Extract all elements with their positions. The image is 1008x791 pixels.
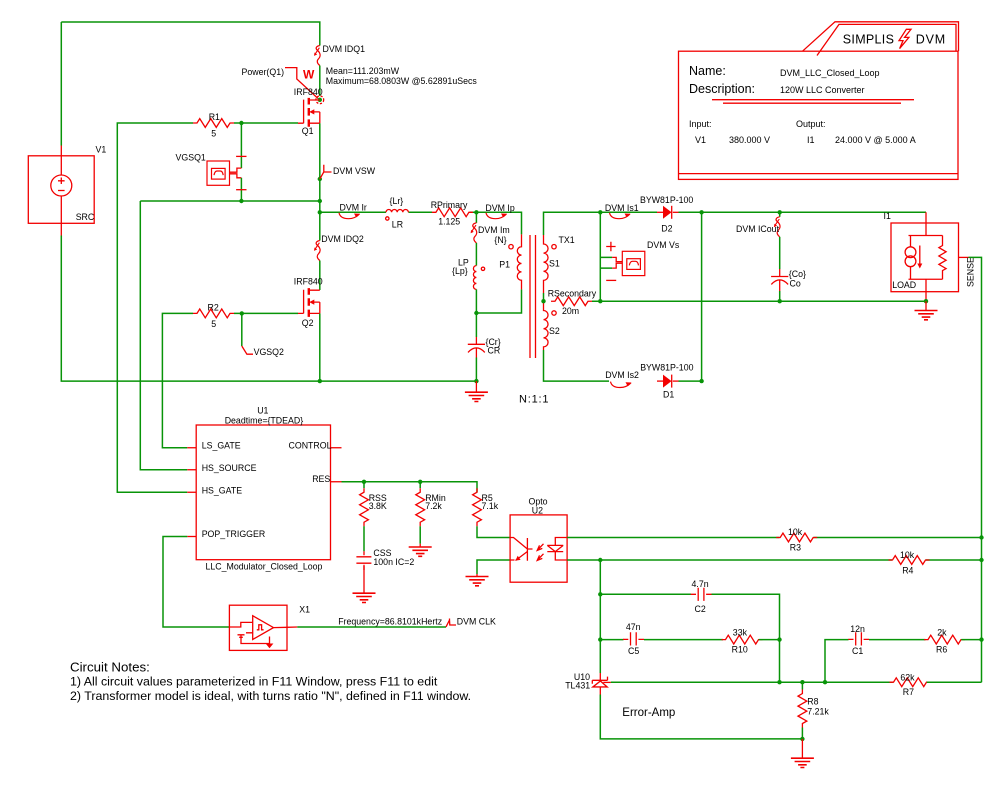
junction RES RMin	[418, 480, 422, 484]
svg-text:R8: R8	[807, 696, 818, 706]
opto light arrows	[537, 544, 543, 561]
wire opto collector R3 line	[567, 537, 981, 539]
transformer secondary winding S2	[544, 301, 549, 350]
DVM banner inner	[817, 24, 956, 55]
wire Q2 source to ground rail	[319, 313, 321, 381]
wire C1 branch vertical	[825, 640, 849, 683]
resistor R5	[473, 488, 482, 526]
svg-text:X1: X1	[299, 605, 310, 615]
svg-text:47n: 47n	[626, 622, 641, 632]
svg-text:POP_TRIGGER: POP_TRIGGER	[202, 529, 266, 539]
svg-text:C5: C5	[628, 646, 639, 656]
wire opto emitter to ground	[477, 560, 510, 574]
svg-text:Frequency=86.8101kHertz: Frequency=86.8101kHertz	[338, 616, 442, 626]
current source I1 arrow	[919, 246, 921, 265]
junction opto cathode TL431	[598, 558, 602, 562]
wire ICout to Co	[779, 237, 781, 269]
wire IDQ1 to Q1 drain	[319, 66, 321, 97]
ground CSS	[353, 593, 376, 602]
svg-text:Name:: Name:	[689, 64, 726, 78]
wire R5 to opto	[477, 526, 510, 537]
svg-text:IRF840: IRF840	[294, 87, 323, 97]
svg-text:BYW81P-100: BYW81P-100	[640, 195, 693, 205]
wire HS_SOURCE vertical	[140, 201, 187, 470]
ground load	[925, 301, 927, 310]
wire TL431 cathode vertical	[599, 560, 601, 673]
wire R8 bottom	[801, 728, 803, 739]
svg-text:2k: 2k	[937, 628, 947, 638]
wire C2/R10 down to main line	[779, 640, 781, 683]
current probe DVM Ir	[339, 213, 360, 219]
svg-text:S2: S2	[549, 326, 560, 336]
capacitor Co curved plate	[771, 280, 788, 291]
current probe DVM Ip	[486, 213, 507, 219]
transformer secondary winding S1	[544, 235, 549, 293]
wire S1 bottom junction	[543, 293, 545, 301]
junction R4 sense	[979, 558, 983, 562]
DVM info box inner bottom line	[679, 173, 959, 175]
capacitor CR curved plate	[468, 348, 485, 358]
wire Co bottom	[779, 291, 781, 301]
opto phototransistor	[510, 538, 532, 561]
junction D2 cathode node	[699, 210, 703, 214]
junction VSW probe	[318, 177, 322, 181]
junction R8 top	[800, 680, 804, 684]
junction C2 line	[598, 592, 602, 596]
phase dot P1	[509, 245, 513, 249]
wire TL431 anode down	[600, 695, 802, 739]
voltage source V1 box	[28, 156, 94, 224]
optocoupler U2 box	[510, 515, 567, 582]
svg-text:I1: I1	[807, 135, 815, 145]
probe DVM Vs plus	[606, 242, 615, 251]
wire S2 bottom to D1 rail	[544, 350, 610, 381]
wire RES rail	[342, 482, 478, 492]
junction R3 sense	[979, 535, 983, 539]
junction C1 branch	[823, 680, 827, 684]
pin RES	[331, 481, 342, 483]
diode D1	[657, 380, 663, 382]
transformer core	[530, 235, 536, 358]
DVM banner outer	[803, 22, 959, 51]
svg-text:100n IC=2: 100n IC=2	[373, 557, 414, 567]
ground primary	[475, 381, 477, 392]
source V1 plus	[58, 178, 65, 185]
oscillator X1 box	[229, 605, 287, 650]
wire secondary top rail to D2	[600, 211, 657, 213]
controller U1 box	[196, 425, 330, 560]
resistor R1	[193, 119, 234, 128]
resistor R7	[890, 678, 931, 687]
CSS to ground	[363, 566, 365, 593]
current probe DVM Is1	[610, 213, 631, 219]
capacitor CR plate	[468, 337, 485, 344]
junction load bottom	[924, 299, 928, 303]
svg-text:10k: 10k	[900, 550, 915, 560]
wire D1 to cathode vertical	[679, 380, 702, 382]
svg-text:CONTROL: CONTROL	[289, 441, 332, 451]
svg-text:24.000 V @ 5.000 A: 24.000 V @ 5.000 A	[835, 135, 916, 145]
junction VSW node	[318, 199, 322, 203]
svg-text:R1: R1	[209, 112, 220, 122]
junction LP/CR/primary-return	[474, 311, 478, 315]
svg-text:SIMPLIS: SIMPLIS	[843, 33, 894, 47]
svg-text:R4: R4	[902, 566, 913, 576]
svg-text:SENSE: SENSE	[966, 257, 976, 287]
wire C1 to R6	[869, 639, 926, 641]
phase dot TX1	[552, 245, 556, 249]
X1 ref symbol	[238, 635, 245, 638]
resistor R10	[722, 635, 763, 644]
svg-text:3.8K: 3.8K	[369, 501, 387, 511]
svg-text:S1: S1	[549, 259, 560, 269]
junction C2R10 main	[777, 680, 781, 684]
svg-text:C2: C2	[695, 604, 706, 614]
ground error amp	[801, 739, 803, 758]
svg-text:DVM CLK: DVM CLK	[457, 616, 496, 626]
transistor Q2	[298, 288, 320, 317]
junction Vs center tap	[598, 299, 602, 303]
wire X1 output CLK	[297, 626, 446, 628]
wire RMin stub	[419, 482, 421, 488]
svg-text:{N}: {N}	[494, 235, 506, 245]
current probe DVM IDQ1	[314, 46, 320, 66]
ground RMin	[419, 544, 421, 547]
wire C2 right	[712, 594, 780, 639]
svg-text:Q2: Q2	[302, 318, 314, 328]
svg-text:7.2k: 7.2k	[425, 501, 442, 511]
junction R2/VGSQ2	[240, 311, 244, 315]
svg-text:Co: Co	[790, 278, 801, 288]
inductor LP	[473, 266, 476, 290]
junction RES RSS	[362, 480, 366, 484]
svg-text:LOAD: LOAD	[892, 280, 916, 290]
probe DVM Vs bracket	[612, 257, 622, 268]
resistor RMin	[416, 488, 425, 526]
svg-text:HS_SOURCE: HS_SOURCE	[202, 463, 257, 473]
svg-text:33k: 33k	[733, 628, 748, 638]
svg-text:D2: D2	[661, 224, 672, 234]
svg-text:TX1: TX1	[559, 235, 575, 245]
wire rectifier cathode vertical	[701, 212, 703, 381]
wire SENSE to feedback	[969, 257, 982, 537]
capacitor CSS	[356, 557, 371, 563]
svg-text:R3: R3	[790, 543, 801, 553]
resistor RPrimary	[432, 208, 473, 217]
junction D1 cathode node	[699, 379, 703, 383]
svg-text:R7: R7	[903, 687, 914, 697]
inductor LR	[386, 210, 408, 213]
svg-text:V1: V1	[695, 135, 706, 145]
svg-text:C1: C1	[852, 646, 863, 656]
wire LP branch upper	[475, 212, 477, 223]
probe flag VGSQ2	[242, 346, 253, 354]
wire TL431 ref main line	[611, 681, 893, 683]
probe VGSQ1 box	[207, 161, 230, 185]
info box underline 2	[723, 102, 901, 104]
wire POP_TRIGGER to X1	[163, 537, 229, 628]
resistor R2	[193, 309, 234, 318]
wire top rail V1+ to Q1 drain	[61, 22, 320, 46]
probe DVM Vs vertical	[600, 212, 612, 301]
transformer primary winding P1	[517, 234, 521, 289]
svg-text:SRC: SRC	[76, 212, 95, 222]
svg-text:12n: 12n	[850, 624, 865, 634]
svg-text:U2: U2	[532, 506, 543, 516]
svg-text:DVM Ir: DVM Ir	[340, 203, 367, 213]
current probe DVM Im	[471, 223, 477, 243]
wire CR bottom	[475, 358, 477, 382]
svg-text:Mean=111.203mW: Mean=111.203mW	[326, 66, 400, 76]
junction half-bridge mid	[318, 210, 322, 214]
svg-text:Error-Amp: Error-Amp	[622, 707, 675, 719]
svg-text:{Lr}: {Lr}	[390, 196, 404, 206]
diode D2	[657, 211, 663, 213]
wire VGSQ1 vertical lower	[240, 178, 242, 201]
svg-text:LS_GATE: LS_GATE	[202, 441, 241, 451]
junction R6 sense	[979, 637, 983, 641]
svg-text:BYW81P-100: BYW81P-100	[640, 363, 693, 373]
X1 input leads	[229, 622, 269, 643]
svg-text:R10: R10	[732, 645, 748, 655]
wire ICout stub	[779, 212, 781, 217]
wire R8 top stub	[801, 682, 803, 689]
resistor RSecondary	[551, 297, 592, 306]
TL431 U10	[592, 673, 607, 695]
svg-text:W: W	[303, 68, 315, 82]
svg-text:RES: RES	[312, 474, 330, 484]
resistor R3	[776, 533, 817, 542]
svg-text:VGSQ1: VGSQ1	[176, 153, 206, 163]
wire R6 to sense vertical	[961, 640, 981, 683]
svg-text:1) All circuit values paramete: 1) All circuit values parameterized in F…	[70, 675, 438, 689]
capacitor C5	[631, 632, 637, 645]
transistor Q1	[298, 98, 320, 127]
svg-text:R6: R6	[936, 645, 947, 655]
junction R8 bottom	[800, 737, 804, 741]
resistor R8	[798, 690, 807, 728]
svg-text:DVM: DVM	[916, 33, 946, 47]
capacitor C1	[856, 632, 862, 645]
wire sense vertical lower	[981, 538, 983, 640]
wire R1 left to HS_GATE vertical	[117, 123, 193, 492]
current source I1 circles	[905, 247, 916, 258]
load resistor	[939, 236, 946, 280]
junction ICout	[778, 210, 782, 214]
svg-text:{Lp}: {Lp}	[452, 266, 468, 276]
power probe Power(Q1)	[285, 68, 318, 99]
pin LS_GATE	[187, 447, 196, 449]
info box underline 1	[712, 99, 914, 101]
source V1 circle	[51, 175, 72, 196]
X1 triangle	[253, 616, 274, 640]
wire center tap rail	[600, 300, 926, 302]
probe flag DVM VSW	[320, 165, 332, 179]
wire resonant rail	[320, 211, 477, 213]
svg-text:1.125: 1.125	[438, 216, 460, 226]
svg-text:Circuit Notes:: Circuit Notes:	[70, 659, 150, 674]
pin HS_GATE	[187, 491, 196, 493]
phase dot LR	[386, 217, 389, 220]
svg-text:7.21k: 7.21k	[807, 706, 829, 716]
svg-text:Deadtime={TDEAD}: Deadtime={TDEAD}	[225, 416, 304, 426]
junction Co bottom	[778, 299, 782, 303]
svg-text:N:1:1: N:1:1	[519, 394, 549, 406]
wire RSS to CSS	[363, 526, 365, 551]
wire to primary winding	[476, 212, 521, 234]
svg-text:DVM Vs: DVM Vs	[647, 240, 680, 250]
current probe DVM ICout	[774, 217, 780, 237]
svg-text:R2: R2	[208, 303, 219, 313]
junction S1/RSecondary	[541, 299, 545, 303]
svg-text:Output:: Output:	[796, 119, 826, 129]
svg-text:DVM Ip: DVM Ip	[485, 203, 514, 213]
current probe DVM IDQ2	[314, 241, 320, 261]
svg-text:I1: I1	[884, 211, 891, 221]
transistor Q1 body arrow	[309, 109, 314, 114]
svg-text:DVM IDQ1: DVM IDQ1	[323, 44, 366, 54]
svg-text:62k: 62k	[900, 673, 915, 683]
wire V1 top lead	[60, 22, 62, 146]
svg-text:DVM VSW: DVM VSW	[333, 166, 376, 176]
wire R10 to C2 vertical	[759, 639, 780, 641]
junction R1/VGSQ1	[239, 121, 243, 125]
source V1 leads	[60, 146, 62, 236]
junction RPrimary/LP	[474, 210, 478, 214]
power probe node circle	[316, 96, 324, 104]
wire primary return	[476, 289, 521, 313]
wire V1 bottom to ground rail	[61, 236, 476, 382]
svg-text:5: 5	[211, 319, 216, 329]
svg-text:2) Transformer model is ideal,: 2) Transformer model is ideal, with turn…	[70, 689, 471, 703]
svg-text:CR: CR	[488, 346, 501, 356]
svg-text:VGSQ2: VGSQ2	[254, 347, 284, 357]
svg-text:7.1k: 7.1k	[482, 501, 499, 511]
probe tick VGSQ1 upper	[236, 155, 246, 157]
wire RSecondary to center tap rail	[592, 300, 600, 302]
X1 output lead	[274, 626, 298, 629]
svg-text:TL431: TL431	[565, 680, 590, 690]
svg-text:DVM_LLC_Closed_Loop: DVM_LLC_Closed_Loop	[780, 68, 880, 78]
svg-text:Description:: Description:	[689, 82, 755, 96]
wire LP to CR junction	[475, 289, 477, 337]
load I1 box	[891, 223, 959, 292]
wire RSS stub	[363, 482, 365, 488]
junction Q2 source ground rail	[318, 379, 322, 383]
svg-text:HS_GATE: HS_GATE	[202, 486, 243, 496]
wire VSW horizontal	[140, 200, 319, 202]
probe tick VGSQ1 lower	[236, 189, 246, 191]
junction Q1 drain	[318, 98, 322, 102]
resistor R4	[889, 556, 930, 565]
probe DVM Vs minus	[606, 279, 616, 281]
transistor Q2 body arrow	[309, 300, 314, 305]
svg-text:10k: 10k	[788, 527, 803, 537]
svg-text:120W LLC Converter: 120W LLC Converter	[780, 85, 865, 95]
pin HS_SOURCE	[187, 469, 196, 471]
junction CR ground rail	[474, 379, 478, 383]
svg-text:DVM ICout: DVM ICout	[736, 224, 780, 234]
resistor RSS	[360, 488, 369, 526]
svg-text:D1: D1	[663, 390, 674, 400]
svg-text:Q1: Q1	[302, 126, 314, 136]
wire VGSQ2 stub	[241, 313, 243, 346]
svg-text:P1: P1	[499, 259, 510, 269]
probe DVM Vs box	[622, 251, 645, 275]
svg-text:Power(Q1): Power(Q1)	[242, 67, 285, 77]
pin POP_TRIGGER	[187, 536, 196, 538]
svg-text:RSecondary: RSecondary	[548, 289, 597, 299]
svg-text:RPrimary: RPrimary	[431, 200, 468, 210]
svg-text:LLC_Modulator_Closed_Loop: LLC_Modulator_Closed_Loop	[206, 562, 323, 572]
wire VGSQ1 vertical upper	[240, 123, 242, 168]
wire S1 top to rail	[544, 212, 610, 235]
phase dot S2	[552, 311, 556, 315]
wire C5 line left	[600, 639, 623, 641]
capacitor C2	[698, 588, 704, 601]
svg-text:U1: U1	[257, 406, 268, 416]
load top lead	[909, 212, 943, 301]
X1 ground arrow	[266, 644, 274, 649]
junction R10 C2	[777, 637, 781, 641]
wire D2 to output junction	[679, 211, 927, 213]
wire Q1 source down Q2 drain	[319, 123, 321, 290]
wire R2 right to Q2 gate	[234, 312, 298, 314]
svg-text:20m: 20m	[562, 306, 579, 316]
phase dot LP	[481, 267, 484, 270]
X1 square wave glyph	[257, 625, 264, 630]
wire Im to LP	[475, 243, 477, 266]
opto emitter arrow	[515, 556, 520, 561]
pin CONTROL	[331, 447, 342, 449]
probe flag DVM CLK	[446, 619, 456, 627]
logo lightning bolt	[899, 29, 911, 48]
svg-text:Input:: Input:	[689, 119, 712, 129]
DVM info box	[679, 51, 959, 179]
junction VGSQ1 on VSW wire	[239, 199, 243, 203]
wire R2 left to LS_GATE vertical	[162, 313, 193, 447]
svg-text:DVM Is1: DVM Is1	[605, 203, 639, 213]
svg-text:Maximum=68.0803W @5.62891uSecs: Maximum=68.0803W @5.62891uSecs	[326, 76, 478, 86]
wire RMin to ground	[419, 526, 421, 544]
probe VGSQ1 bracket	[230, 168, 242, 178]
wire C5 to R10	[644, 639, 723, 641]
wire R1 right to Q1 gate	[234, 122, 298, 124]
wire opto cathode R4 line	[567, 559, 981, 561]
capacitor Co plate	[771, 269, 788, 277]
svg-text:5: 5	[211, 128, 216, 138]
svg-text:DVM IDQ2: DVM IDQ2	[321, 234, 364, 244]
svg-text:LR: LR	[392, 220, 403, 230]
wire R7 to sense vertical	[927, 681, 982, 683]
source V1 minus	[58, 190, 65, 192]
resistor R6	[924, 635, 965, 644]
svg-text:IRF840: IRF840	[294, 277, 323, 287]
ground opto	[476, 574, 478, 576]
svg-text:4.7n: 4.7n	[692, 579, 709, 589]
svg-text:380.000 V: 380.000 V	[729, 135, 770, 145]
junction secondary top / Vs	[598, 210, 602, 214]
svg-text:DVM Is2: DVM Is2	[605, 370, 639, 380]
svg-text:DVM Im: DVM Im	[478, 225, 510, 235]
load SENSE stub	[959, 256, 969, 258]
current probe DVM Is2	[611, 382, 632, 388]
wire C2 line left	[600, 593, 691, 595]
svg-text:V1: V1	[96, 145, 107, 155]
opto LED	[555, 538, 567, 561]
junction C5 line	[598, 637, 602, 641]
